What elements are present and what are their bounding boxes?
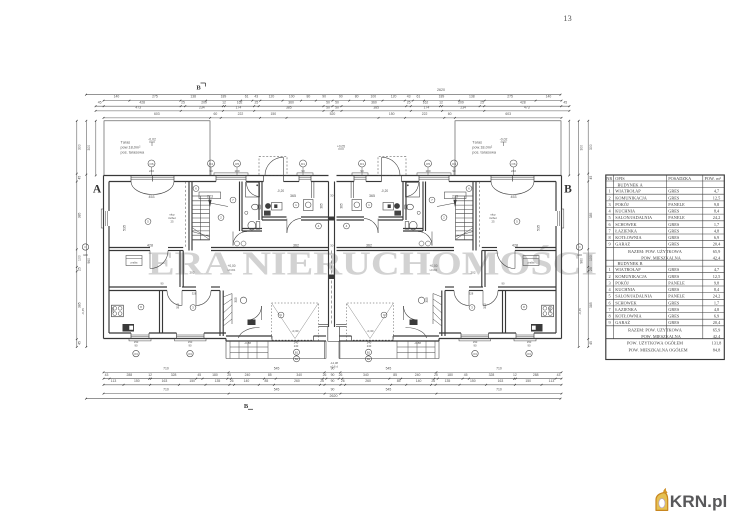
stair treads: [192, 200, 210, 202]
svg-text:25: 25: [480, 100, 484, 104]
west inner wall segments: [108, 182, 110, 212]
svg-text:222: 222: [238, 112, 244, 116]
svg-text:85: 85: [268, 373, 272, 377]
svg-text:-0,88: -0,88: [414, 341, 421, 345]
svg-text:428: 428: [147, 243, 153, 247]
svg-text:150: 150: [189, 379, 195, 383]
party wall south extension shaft: [327, 327, 329, 341]
svg-text:189: 189: [221, 94, 227, 98]
svg-text:150: 150: [134, 379, 140, 383]
svg-text:B1: B1: [367, 350, 371, 354]
garage ladder hatch: [231, 294, 233, 325]
svg-text:O3: O3: [473, 352, 477, 356]
salon door arc: [497, 251, 515, 269]
garage front wall: [339, 340, 439, 342]
svg-text:pow.18,0m²: pow.18,0m²: [472, 146, 493, 150]
entry door canopy dashed: [259, 157, 287, 176]
north wall jambs: [533, 176, 535, 182]
chimney stack at party wall: [265, 203, 271, 209]
svg-text:288: 288: [533, 373, 539, 377]
svg-text:PANELE: PANELE: [668, 280, 685, 285]
floor drain: [417, 211, 420, 214]
entry door swing (outside): [382, 157, 400, 175]
svg-text:365: 365: [290, 194, 296, 198]
party wall junction blocks: [328, 217, 335, 221]
svg-text:GRES: GRES: [668, 307, 680, 312]
svg-text:545: 545: [386, 366, 392, 370]
svg-text:113: 113: [549, 379, 555, 383]
svg-text:5: 5: [609, 215, 611, 220]
svg-text:GRES: GRES: [668, 274, 680, 279]
svg-text:240: 240: [294, 340, 299, 344]
pokoj/garage divider wall: [219, 291, 221, 337]
svg-text:100: 100: [289, 94, 295, 98]
svg-text:BUDYNEK B: BUDYNEK B: [618, 261, 643, 266]
garage door leaf V marks: [347, 303, 394, 341]
svg-text:535: 535: [123, 225, 127, 231]
svg-text:GRES: GRES: [668, 195, 680, 200]
kitchen counter: [352, 182, 354, 199]
svg-text:710: 710: [496, 366, 502, 370]
north wall jambs: [130, 176, 132, 182]
north outer wall line: [337, 175, 562, 177]
svg-text:260: 260: [365, 379, 371, 383]
top dim chain row 1: [104, 100, 562, 102]
svg-text:150: 150: [389, 112, 395, 116]
svg-text:25: 25: [589, 267, 593, 271]
svg-text:WIATROŁAP: WIATROŁAP: [615, 189, 641, 194]
svg-text:288: 288: [126, 373, 132, 377]
bottom dim chain row 1 (710/545/90): [104, 371, 562, 373]
svg-text:340: 340: [363, 373, 369, 377]
left bubble 100: [82, 244, 88, 250]
svg-text:300: 300: [580, 145, 584, 151]
svg-text:GRES: GRES: [668, 320, 680, 325]
svg-text:pow.18,0m²: pow.18,0m²: [121, 146, 142, 150]
svg-text:BUDYNEK A: BUDYNEK A: [618, 182, 644, 187]
south jambs: [130, 333, 132, 339]
west outer wall: [103, 176, 105, 339]
svg-text:603: 603: [154, 112, 160, 116]
svg-text:pos. tarasowa: pos. tarasowa: [472, 151, 497, 155]
svg-text:POW. UŻYTKOWA OGÓŁEM: POW. UŻYTKOWA OGÓŁEM: [627, 341, 683, 346]
svg-text:45: 45: [78, 176, 82, 180]
svg-text:43: 43: [105, 373, 109, 377]
svg-text:GRES: GRES: [668, 222, 680, 227]
svg-text:61: 61: [245, 94, 249, 98]
svg-text:-0,88: -0,88: [244, 341, 251, 345]
west window glazing + sill: [558, 211, 560, 226]
shower: [406, 183, 420, 198]
door type circles corridor: [235, 241, 240, 246]
room number circles: [145, 219, 151, 225]
svg-text:240: 240: [367, 340, 372, 344]
bath south wall: [403, 228, 423, 230]
floor drain: [245, 211, 248, 214]
svg-text:90: 90: [339, 94, 343, 98]
kitchen window glazing + sill: [299, 176, 311, 178]
svg-text:150: 150: [527, 340, 532, 344]
svg-text:ŁAZIENKA: ŁAZIENKA: [615, 307, 638, 312]
top dim chain row 3: [96, 110, 570, 112]
pokoj door arc: [196, 291, 211, 306]
top dim chain row 2: [96, 105, 570, 107]
svg-text:202: 202: [470, 271, 475, 275]
svg-text:90: 90: [331, 388, 335, 392]
svg-text:26: 26: [323, 373, 327, 377]
mid wall y248-250 segments: [515, 247, 556, 249]
right bubble 100: [576, 244, 582, 250]
svg-text:260: 260: [294, 379, 300, 383]
corridor south wall y287-290 segments: [498, 286, 556, 288]
svg-text:45: 45: [464, 373, 468, 377]
south window 1 glazing + sill: [516, 334, 534, 336]
svg-text:150: 150: [470, 379, 476, 383]
svg-text:GRES: GRES: [668, 242, 680, 247]
room number circles: [514, 219, 520, 225]
svg-text:328: 328: [469, 292, 474, 296]
wiatrolap door arc: [364, 219, 378, 233]
svg-text:163: 163: [162, 379, 168, 383]
svg-text:60: 60: [448, 112, 452, 116]
svg-text:150: 150: [525, 379, 531, 383]
svg-text:12: 12: [513, 373, 517, 377]
svg-text:960: 960: [580, 258, 584, 264]
svg-text:100: 100: [78, 255, 82, 261]
stair center line: [463, 196, 465, 240]
garage rear wall stubs at party: [319, 324, 329, 326]
salon east wall: [475, 182, 477, 251]
svg-text:GRES: GRES: [668, 287, 680, 292]
top dim chain row 4: [104, 117, 562, 119]
svg-text:GRES: GRES: [668, 314, 680, 319]
svg-text:NR: NR: [606, 176, 612, 181]
svg-text:-0,45: -0,45: [578, 308, 582, 315]
svg-text:H=304: H=304: [228, 268, 236, 272]
svg-text:-0,20: -0,20: [277, 189, 284, 193]
chimney kotlownia: [123, 324, 135, 332]
garage step black block: [248, 320, 256, 326]
svg-text:240: 240: [245, 373, 251, 377]
svg-text:SALON/JADALNIA: SALON/JADALNIA: [615, 215, 653, 220]
boiler: [112, 305, 124, 317]
chimney stack at party wall: [394, 203, 400, 209]
washbasin: [407, 204, 414, 210]
svg-text:O3: O3: [188, 352, 192, 356]
svg-text:50: 50: [326, 106, 330, 110]
right dim chain col 3 (terrace): [568, 121, 570, 176]
svg-text:428: 428: [520, 100, 526, 104]
svg-text:340: 340: [296, 373, 302, 377]
svg-text:-0,30: -0,30: [367, 329, 374, 333]
svg-text:61: 61: [417, 94, 421, 98]
svg-text:300: 300: [78, 144, 82, 150]
stair winder diagonals: [456, 232, 474, 237]
salon east wall: [188, 182, 190, 251]
svg-text:240: 240: [415, 373, 421, 377]
svg-text:D1: D1: [360, 162, 364, 166]
svg-text:365: 365: [320, 203, 324, 209]
south window 1 glazing + sill: [131, 334, 149, 336]
svg-text:B2: B2: [295, 357, 299, 361]
svg-text:RAZEM: POW. UŻYTKOWA: RAZEM: POW. UŻYTKOWA: [628, 249, 683, 254]
svg-text:45: 45: [78, 341, 82, 345]
north window bubbles: [148, 160, 155, 167]
kitchen sink: [304, 200, 314, 211]
svg-text:360: 360: [371, 100, 377, 104]
wiatrolap south wall: [379, 216, 404, 218]
kitchen counter: [311, 182, 313, 199]
stair winder diagonals: [192, 232, 210, 237]
svg-text:90: 90: [502, 281, 505, 285]
kotlownia door arc: [167, 291, 182, 306]
top overall dimension line 2620: [86, 94, 561, 96]
garage interior door arc: [404, 306, 418, 320]
svg-text:D1: D1: [301, 162, 305, 166]
kitchen window glazing + sill: [354, 176, 366, 178]
svg-text:50: 50: [326, 100, 330, 104]
svg-text:135: 135: [445, 379, 451, 383]
mid wall y248-250 segments: [109, 247, 150, 249]
garage door leaf V marks: [272, 303, 319, 341]
south jambs: [533, 333, 535, 339]
bath west wall: [239, 182, 241, 232]
svg-text:H=304: H=304: [430, 268, 438, 272]
svg-text:240: 240: [294, 344, 299, 348]
porch door arc: [239, 327, 260, 338]
bath window glazing + sill: [419, 176, 449, 178]
KRN.pl logo icon: [656, 493, 668, 511]
table column dividers: [613, 175, 615, 339]
svg-text:328: 328: [171, 373, 177, 377]
dashed line hall: [479, 182, 481, 248]
svg-text:25: 25: [407, 100, 411, 104]
svg-text:GRES: GRES: [668, 189, 680, 194]
svg-text:RAZEM: POW. UŻYTKOWA: RAZEM: POW. UŻYTKOWA: [628, 328, 683, 333]
svg-text:PANELE: PANELE: [668, 215, 685, 220]
svg-text:PANELE: PANELE: [668, 202, 685, 207]
svg-text:85: 85: [393, 373, 397, 377]
svg-text:O6: O6: [149, 162, 153, 166]
svg-text:5: 5: [609, 294, 611, 299]
svg-text:120: 120: [269, 94, 275, 98]
dashed line hall: [184, 182, 186, 248]
svg-text:120: 120: [391, 94, 397, 98]
svg-text:25: 25: [491, 220, 495, 224]
kitchen sink: [352, 200, 362, 211]
svg-text:9: 9: [609, 320, 611, 325]
svg-text:GRES: GRES: [668, 228, 680, 233]
right dim chain col 1: [587, 121, 589, 347]
garage door dotted: [272, 339, 314, 341]
table header: [606, 180, 725, 182]
garage step black block: [410, 320, 418, 326]
svg-text:473: 473: [524, 106, 530, 110]
svg-text:240: 240: [367, 344, 372, 348]
svg-text:ŁAZIENKA: ŁAZIENKA: [615, 228, 638, 233]
bottom overall line 2620: [86, 398, 561, 400]
svg-text:OPIS: OPIS: [615, 176, 625, 181]
svg-text:9: 9: [609, 242, 611, 247]
svg-text:428: 428: [512, 243, 518, 247]
svg-text:45: 45: [98, 100, 102, 104]
svg-text:KUCHNIA: KUCHNIA: [615, 287, 636, 292]
stair cut wedge + handrail: [453, 200, 456, 207]
svg-text:KUCHNIA: KUCHNIA: [615, 209, 636, 214]
svg-text:45: 45: [197, 373, 201, 377]
door type circles corridor: [426, 241, 431, 246]
svg-text:2: 2: [609, 195, 611, 200]
svg-text:25: 25: [170, 220, 174, 224]
svg-text:GARAŻ: GARAŻ: [615, 242, 630, 247]
svg-text:453: 453: [149, 195, 155, 199]
svg-text:KOTŁOWNIA: KOTŁOWNIA: [615, 314, 642, 319]
west inner wall segments: [555, 182, 557, 212]
svg-text:26: 26: [339, 373, 343, 377]
svg-text:545: 545: [274, 366, 280, 370]
svg-text:2620: 2620: [330, 394, 338, 398]
bottom dim chain row 3: [104, 384, 562, 386]
svg-text:B: B: [196, 85, 201, 92]
washbasin: [252, 204, 259, 210]
svg-text:138: 138: [190, 94, 196, 98]
svg-text:O3: O3: [134, 352, 138, 356]
terrace french door glazing: [131, 176, 174, 178]
svg-text:135: 135: [215, 379, 221, 383]
svg-text:234: 234: [460, 106, 466, 110]
svg-text:O5: O5: [426, 162, 430, 166]
svg-text:174: 174: [424, 106, 430, 110]
svg-text:-0,02: -0,02: [500, 138, 508, 142]
svg-text:pos. tarasowa: pos. tarasowa: [121, 151, 146, 155]
bath door arc: [233, 232, 247, 246]
bath/wiatrolap divider: [405, 182, 407, 221]
svg-text:POW. m²: POW. m²: [705, 176, 722, 181]
svg-text:100: 100: [83, 253, 88, 257]
svg-text:25: 25: [255, 100, 259, 104]
svg-text:12: 12: [222, 100, 226, 104]
garage label circle: [418, 297, 424, 303]
svg-text:520: 520: [330, 112, 336, 116]
svg-text:KOTŁOWNIA: KOTŁOWNIA: [615, 235, 642, 240]
svg-text:GRES: GRES: [668, 300, 680, 305]
svg-text:2620: 2620: [437, 88, 445, 92]
svg-text:362: 362: [293, 243, 299, 247]
washing machine: [126, 256, 142, 266]
svg-text:113: 113: [111, 379, 117, 383]
garage front wall: [226, 340, 326, 342]
svg-text:140: 140: [114, 94, 120, 98]
svg-text:3: 3: [609, 280, 611, 285]
north window bubbles: [510, 160, 517, 167]
svg-text:45: 45: [563, 100, 567, 104]
boiler: [542, 305, 554, 317]
svg-text:365: 365: [340, 203, 344, 209]
svg-text:8: 8: [609, 235, 611, 240]
svg-text:26: 26: [341, 379, 345, 383]
svg-text:473: 473: [135, 106, 141, 110]
svg-text:428: 428: [139, 100, 145, 104]
bottom dim chain row 4 (710/545/90): [104, 393, 562, 395]
left dim chain col 3 (terrace): [95, 121, 97, 176]
svg-text:150: 150: [270, 112, 276, 116]
svg-text:603: 603: [505, 112, 511, 116]
svg-text:545: 545: [386, 388, 392, 392]
garage ladder hatch: [432, 294, 434, 325]
bath south wall: [242, 228, 262, 230]
svg-text:WIATROŁAP: WIATROŁAP: [615, 267, 641, 272]
svg-text:GARAŻ: GARAŻ: [615, 320, 630, 325]
svg-text:3: 3: [609, 202, 611, 207]
svg-text:545: 545: [274, 388, 280, 392]
svg-text:222: 222: [422, 112, 428, 116]
svg-text:1: 1: [609, 189, 611, 194]
svg-text:43: 43: [254, 94, 258, 98]
svg-text:189: 189: [439, 94, 445, 98]
svg-text:328: 328: [192, 292, 197, 296]
svg-text:-0,02: -0,02: [148, 138, 156, 142]
svg-text:+0,6 d: +0,6 d: [330, 365, 338, 369]
party wall: [328, 182, 330, 328]
svg-text:223: 223: [207, 195, 213, 199]
svg-text:180: 180: [447, 373, 453, 377]
pokoj/garage divider wall: [444, 291, 446, 337]
svg-text:385: 385: [373, 106, 379, 110]
pokoj door arc: [454, 291, 469, 306]
svg-text:Taras: Taras: [121, 141, 131, 145]
svg-text:223: 223: [452, 195, 458, 199]
svg-text:162: 162: [423, 100, 429, 104]
svg-text:GRES: GRES: [668, 235, 680, 240]
svg-text:B2: B2: [367, 357, 371, 361]
svg-text:26: 26: [230, 379, 234, 383]
svg-text:25: 25: [78, 267, 82, 271]
svg-text:POKÓJ: POKÓJ: [615, 280, 629, 285]
svg-text:pralka: pralka: [528, 261, 535, 264]
svg-text:710: 710: [163, 388, 169, 392]
kotlownia/pokoj divider wall: [505, 291, 507, 334]
svg-text:13: 13: [563, 13, 572, 23]
svg-text:300: 300: [176, 303, 180, 309]
svg-text:B1: B1: [295, 350, 299, 354]
kotlownia/pokoj divider wall: [159, 291, 161, 334]
svg-text:453: 453: [511, 195, 517, 199]
svg-text:140: 140: [244, 379, 250, 383]
wiatrolap south wall: [262, 216, 287, 218]
svg-text:25: 25: [181, 100, 185, 104]
bath window glazing + sill: [216, 176, 246, 178]
svg-text:288: 288: [548, 307, 552, 313]
stair outline: [192, 196, 210, 240]
south window 2 glazing + sill: [177, 334, 205, 336]
svg-text:140: 140: [416, 379, 422, 383]
svg-text:80: 80: [355, 94, 359, 98]
svg-text:B: B: [244, 403, 249, 410]
svg-text:150: 150: [134, 340, 139, 344]
svg-text:209: 209: [458, 100, 464, 104]
svg-text:209: 209: [201, 100, 207, 104]
terrace unit outline: [104, 121, 210, 176]
svg-text:385: 385: [286, 106, 292, 110]
svg-text:PANELE: PANELE: [668, 294, 685, 299]
stair cut wedge + handrail: [208, 200, 211, 207]
svg-text:100: 100: [577, 253, 582, 257]
svg-text:Taras: Taras: [472, 141, 482, 145]
svg-text:300: 300: [483, 303, 487, 309]
svg-text:80: 80: [307, 94, 311, 98]
svg-text:-0,45: -0,45: [81, 308, 85, 315]
svg-text:KOMUNIKACJA: KOMUNIKACJA: [615, 195, 647, 200]
